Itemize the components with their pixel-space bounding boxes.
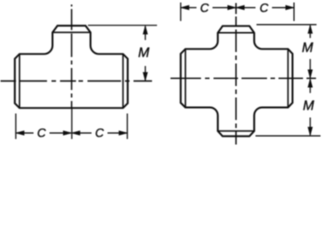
cross top outlet bevel line xyxy=(218,32,254,34)
cross dimension C left arrows xyxy=(181,6,235,10)
cross right end bevel line xyxy=(287,49,289,107)
svg-text:C: C xyxy=(37,126,46,140)
svg-text:M: M xyxy=(302,40,314,55)
tee body outline xyxy=(15,26,128,108)
svg-text:C: C xyxy=(95,126,104,140)
cross dimension M lower arrow pair xyxy=(308,79,312,135)
tee dimension C center extension line xyxy=(71,109,73,139)
tee right end bevel line xyxy=(122,54,124,108)
svg-text:M: M xyxy=(303,98,315,113)
cross dimension M top extension line xyxy=(257,24,317,26)
tee vertical centerline xyxy=(71,5,73,110)
cross dimension C right extension line xyxy=(293,3,295,22)
cross dimension M upper arrow pair xyxy=(308,26,312,78)
tee horizontal centerline xyxy=(1,80,153,82)
cross dimension C right arrows xyxy=(237,6,294,10)
cross left end bevel line xyxy=(184,49,186,107)
cross horizontal centerline xyxy=(171,77,317,79)
cross bottom outlet bevel line xyxy=(218,130,254,132)
tee dimension C right extension line xyxy=(126,114,128,140)
tee dimension C right arrows xyxy=(72,131,127,135)
svg-text:C: C xyxy=(260,1,269,15)
tee dimension C left extension line xyxy=(15,114,17,140)
tee dimension M upper arrow xyxy=(143,26,147,40)
svg-text:C: C xyxy=(200,1,209,15)
tee top outlet bevel line xyxy=(53,31,91,33)
svg-text:M: M xyxy=(138,45,150,60)
tee dimension M extension line (top face) xyxy=(88,24,157,26)
tee dimension M lower arrow xyxy=(143,66,147,80)
cross body outline xyxy=(181,26,293,136)
tee dimension C left arrows xyxy=(16,131,71,135)
tee left end bevel line xyxy=(19,54,21,108)
cross vertical centerline xyxy=(235,3,237,145)
cross dimension M bottom extension line xyxy=(256,135,321,137)
cross dimension C left extension line xyxy=(180,3,182,22)
